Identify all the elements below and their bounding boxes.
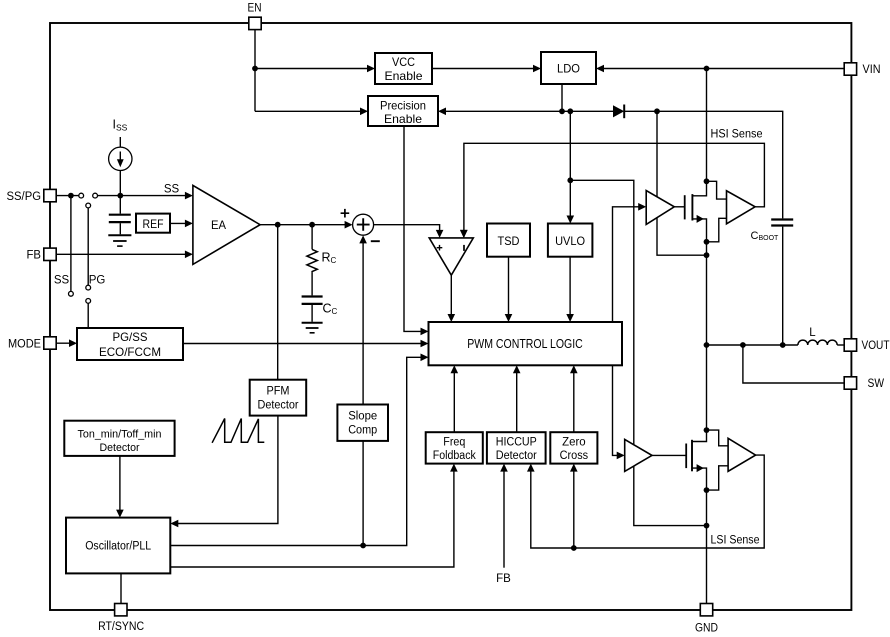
capacitor SS [119, 196, 121, 214]
svg-text:GND: GND [695, 622, 718, 634]
svg-text:ISS: ISS [113, 118, 128, 133]
block LDO [541, 52, 596, 84]
block PWM CONTROL LOGIC [429, 322, 623, 365]
resistor RC [311, 225, 313, 250]
pin EN [249, 17, 261, 29]
svg-text:FB: FB [496, 573, 511, 585]
node HS drain junction [704, 178, 710, 184]
current source ISS [119, 137, 121, 196]
svg-text:SS: SS [164, 184, 180, 196]
wire PG to mode logic [87, 303, 89, 328]
node CBOOT junction [780, 342, 786, 348]
node LS driver return junction [704, 523, 710, 529]
svg-text:Oscillator/PLL: Oscillator/PLL [85, 541, 152, 553]
node LS source junction [704, 487, 710, 493]
wire EN to VCC Enable [255, 68, 373, 70]
node slope comp junction [360, 543, 366, 549]
svg-text:TSD: TSD [498, 234, 520, 248]
svg-text:Slope: Slope [348, 411, 377, 423]
pin VIN [844, 63, 856, 75]
svg-text:Ton_min/Toff_min: Ton_min/Toff_min [78, 428, 162, 440]
svg-text:Comp: Comp [348, 425, 377, 437]
summing junction [353, 214, 374, 235]
svg-text:EA: EA [211, 218, 226, 232]
svg-text:HSI Sense: HSI Sense [711, 128, 763, 140]
svg-text:MODE: MODE [8, 338, 41, 350]
pin FB wire to EA [56, 253, 190, 255]
block Zero Cross [550, 432, 597, 463]
block PFM Detector [250, 380, 307, 416]
label summer minus [371, 240, 380, 242]
svg-text:SS: SS [54, 275, 70, 287]
wire HS drain sense tap [707, 181, 727, 199]
wire TSD to PWM logic [508, 257, 510, 320]
svg-text:Freq: Freq [443, 436, 465, 448]
wire HSI Sense rail [464, 143, 765, 237]
svg-text:Detector: Detector [258, 399, 299, 411]
wire HS drain [692, 69, 706, 196]
capacitor CC [302, 295, 323, 297]
node VIN rail junction [704, 66, 710, 72]
svg-text:RT/SYNC: RT/SYNC [98, 621, 144, 633]
switch contact SS end [69, 291, 74, 296]
svg-text:L: L [809, 327, 816, 339]
switch contact SS/PG b [93, 193, 98, 198]
svg-text:EN: EN [248, 2, 262, 14]
svg-text:Foldback: Foldback [433, 450, 476, 462]
svg-text:Enable: Enable [385, 69, 423, 83]
wire VCC branch down [569, 111, 571, 180]
wire LS source sense tap [707, 466, 729, 490]
svg-text:CC: CC [323, 302, 338, 317]
block Precision Enable [368, 96, 438, 126]
wire diode to CBOOT [624, 111, 783, 218]
wire EA output [260, 224, 350, 226]
svg-text:RC: RC [322, 251, 337, 266]
wire SS sense [70, 196, 72, 292]
wire oscillator to slope and PWM logic [170, 357, 426, 545]
switch contact PG top [86, 203, 91, 208]
wire HS driver return [657, 217, 704, 255]
switch contact SS/PG a [79, 193, 84, 198]
wire SW branch [743, 345, 845, 383]
op-amp EA [193, 185, 260, 264]
svg-text:PG: PG [89, 275, 106, 287]
svg-text:REF: REF [143, 219, 164, 231]
wire Precision Enable to PWM logic [404, 126, 426, 331]
svg-text:FB: FB [27, 250, 42, 262]
switch contact PG mid [86, 285, 91, 290]
buffer HS gate driver [646, 191, 674, 225]
pin RT/SYNC [115, 604, 127, 616]
wire VIN to LDO [599, 68, 846, 70]
block REF [136, 214, 170, 233]
wire PWM logic to LS driver [613, 365, 623, 455]
wire inductor to VOUT [837, 344, 845, 346]
wire LS source [692, 468, 707, 603]
wire Slope Comp input [362, 441, 364, 546]
wire PFM Detector to oscillator [173, 416, 278, 524]
wire switch to SS node [98, 195, 191, 197]
amp LS current sense [728, 438, 756, 471]
block Oscillator/PLL [66, 518, 170, 574]
wire VCC Enable to LDO [432, 68, 539, 70]
wire LS drain sense tap [707, 430, 729, 446]
wire HS source sense tap [707, 218, 727, 242]
wire LSI Sense rail [531, 455, 764, 548]
ground CC [302, 322, 323, 324]
node EA output junction [275, 222, 281, 228]
wire LS driver return [634, 466, 704, 525]
block Ton_min/Toff_min Detector [64, 421, 174, 456]
comparator PWM [429, 238, 473, 275]
wire HS driver to gate [674, 206, 684, 208]
wire EN to Precision Enable [255, 110, 366, 112]
wire LSI to Zero Cross [573, 466, 575, 548]
svg-text:VIN: VIN [863, 64, 881, 76]
node LDO boot junction [559, 108, 565, 114]
svg-text:LDO: LDO [557, 61, 580, 75]
block HICCUP Detector [487, 432, 546, 463]
svg-text:SW: SW [868, 378, 885, 390]
wire boot to HS driver supply [656, 111, 658, 196]
wire MODE to mode logic [56, 342, 74, 344]
block TSD [487, 224, 530, 257]
svg-text:Enable: Enable [384, 112, 422, 126]
svg-text:Zero: Zero [562, 436, 586, 448]
wire Zero Cross to PWM logic [573, 368, 575, 432]
node SS junction [117, 193, 123, 199]
waveform sawtooth [212, 419, 264, 443]
node HS driver return junction [704, 252, 710, 258]
wire REF to EA [170, 222, 190, 224]
wire HICCUP to PWM logic [516, 368, 518, 432]
wire boot rail to Precision Enable [441, 110, 614, 112]
node SW junction [704, 342, 710, 348]
pin SS/PG [44, 189, 56, 201]
node Rc junction [309, 222, 315, 228]
svg-text:HICCUP: HICCUP [496, 436, 537, 448]
buffer LS gate driver [625, 439, 652, 471]
svg-text:LSI Sense: LSI Sense [711, 535, 760, 547]
svg-text:PG/SS: PG/SS [113, 330, 148, 344]
wire slope comp to summer [362, 238, 364, 405]
node SS/PG junction [68, 193, 74, 199]
node SW branch junction [740, 342, 746, 348]
svg-text:UVLO: UVLO [555, 234, 585, 248]
node EN-VCC junction [252, 66, 258, 72]
wire LS drain [692, 345, 707, 442]
svg-text:Detector: Detector [496, 450, 537, 462]
switch contact PG bottom [86, 299, 91, 304]
wire FB to HICCUP [503, 466, 505, 568]
wire LS driver to gate [652, 454, 686, 456]
svg-text:VOUT: VOUT [862, 340, 890, 352]
wire EN vertical [254, 29, 256, 111]
svg-text:PFM: PFM [267, 385, 290, 397]
wire oscillator to RT/SYNC [120, 573, 122, 603]
pin SW [844, 377, 856, 389]
label summer plus [341, 209, 350, 218]
svg-text:ECO/FCCM: ECO/FCCM [99, 345, 161, 359]
wire Ton_min to oscillator [119, 456, 121, 515]
ground SS cap [108, 234, 131, 236]
block Freq Foldback [426, 432, 483, 463]
svg-text:Precision: Precision [380, 98, 426, 112]
inductor L [798, 340, 837, 345]
amp HS current sense [727, 191, 756, 224]
transistor HS FET [684, 195, 686, 219]
node VCC branch junction [567, 108, 573, 114]
wire UVLO to PWM logic [569, 257, 571, 320]
node LSI zero cross junction [571, 545, 577, 551]
wire comparator to PWM logic [450, 275, 452, 319]
wire oscillator to Freq Foldback [170, 466, 454, 567]
svg-text:SS/PG: SS/PG [7, 191, 42, 203]
svg-text:VCC: VCC [392, 55, 415, 69]
block Slope Comp [337, 405, 388, 441]
pin FB [44, 248, 56, 260]
svg-text:Detector: Detector [100, 442, 140, 454]
block VCC Enable [375, 53, 432, 84]
wire EA to PFM Detector [277, 225, 279, 380]
block PG/SS ECO/FCCM [77, 328, 183, 360]
svg-text:CBOOT: CBOOT [751, 230, 780, 242]
wire SW rail [707, 344, 798, 346]
wire HS source [692, 219, 706, 345]
pin GND [700, 604, 712, 616]
pin MODE [44, 337, 56, 349]
wire Freq Foldback to PWM logic [453, 368, 455, 432]
node VCC-UVLO junction [567, 177, 573, 183]
pin SS/PG wire [56, 195, 78, 197]
wire LDO output down [561, 84, 563, 111]
wire to UVLO [569, 180, 571, 221]
wire VCC to LS driver supply [570, 180, 634, 444]
pin VOUT [844, 339, 856, 351]
svg-text:PWM CONTROL LOGIC: PWM CONTROL LOGIC [467, 337, 583, 351]
wire PWM logic to HS driver [613, 207, 644, 322]
wire mode logic to PWM logic [183, 343, 426, 345]
wire PG switch [87, 208, 89, 285]
node LS drain junction [704, 427, 710, 433]
wire summer to comparator [374, 225, 440, 236]
diode boot D1 [613, 105, 624, 117]
svg-text:Cross: Cross [560, 450, 589, 462]
block UVLO [548, 224, 593, 257]
transistor LS FET [685, 444, 687, 469]
node boot-driver junction [654, 108, 660, 114]
node HS source junction [704, 239, 710, 245]
capacitor CBOOT [771, 218, 793, 220]
